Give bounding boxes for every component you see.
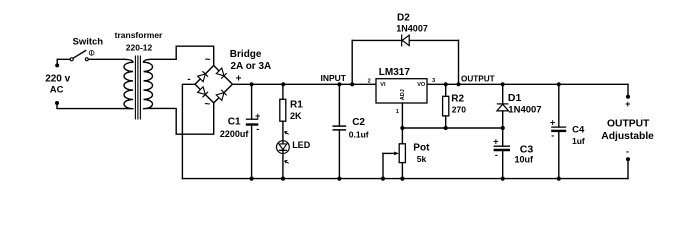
svg-text:1uf: 1uf [572, 136, 585, 146]
node junction C1 bottom [250, 177, 254, 181]
transformer T1 secondary winding [144, 59, 153, 108]
svg-text:transformer: transformer [115, 30, 163, 40]
svg-text:+: + [493, 137, 498, 147]
svg-text:270: 270 [452, 105, 466, 115]
svg-text:-: - [256, 124, 259, 134]
svg-text:ADJ: ADJ [400, 89, 406, 100]
resistor R1 top lead [282, 84, 284, 99]
svg-text:C2: C2 [352, 117, 365, 128]
svg-text:-: - [495, 150, 498, 160]
svg-text:Bridge: Bridge [230, 49, 262, 60]
svg-text:D1: D1 [508, 92, 522, 104]
wire output minus stub [627, 159, 629, 178]
node AC line terminal top [55, 63, 59, 67]
svg-text:2A or 3A: 2A or 3A [231, 61, 272, 72]
potentiometer POT wiper arrow [383, 152, 399, 156]
svg-text:VI: VI [380, 82, 386, 88]
svg-text:3: 3 [432, 78, 435, 84]
node junction C2 bottom [337, 177, 341, 181]
resistor R2 bottom lead [445, 116, 447, 128]
wire bridge minus to ground rail [182, 84, 195, 178]
svg-text:1N4007: 1N4007 [508, 104, 541, 115]
transformer T1 core [135, 56, 140, 120]
switch S1 right contact [85, 58, 88, 61]
LED D3 cathode bar [279, 149, 287, 151]
svg-text:220-12: 220-12 [126, 42, 153, 52]
svg-text:1: 1 [396, 109, 399, 115]
node junction R2 top [444, 82, 448, 86]
svg-text:+: + [255, 111, 260, 121]
wire wiper to ground rail [382, 153, 384, 178]
bridge diode left-top [198, 71, 208, 82]
bridge rectifier BR1 diamond [195, 66, 232, 103]
wire U1 ADJ pin [401, 103, 403, 128]
svg-text:AC: AC [50, 85, 64, 96]
wire switch to transformer primary [88, 58, 124, 60]
switch S1 lever [73, 51, 86, 59]
node junction R1 top [281, 82, 285, 86]
svg-text:R2: R2 [451, 93, 464, 104]
svg-text:Adjustable: Adjustable [601, 131, 654, 142]
node junction D2 input [350, 82, 354, 86]
node junction D2 output [456, 82, 460, 86]
svg-text:+: + [550, 118, 555, 128]
svg-text:-: - [551, 131, 554, 141]
wire D2 top horizontal [352, 39, 458, 41]
svg-text:OUTPUT: OUTPUT [607, 119, 650, 130]
capacitor C1 bottom lead [251, 125, 253, 179]
diode D2 symbol [402, 34, 410, 46]
capacitor C2 bottom lead [338, 130, 340, 179]
capacitor C2 plates [333, 126, 347, 130]
node junction C1 top [250, 82, 254, 86]
capacitor C3 top lead [502, 128, 504, 146]
node junction D1 top [501, 82, 505, 86]
wire secondary top to bridge AC top [152, 46, 214, 65]
svg-text:220 v: 220 v [45, 73, 70, 84]
wire LED to ground rail [282, 150, 284, 178]
potentiometer POT top lead [401, 128, 403, 144]
wire D2 output-side vertical [458, 40, 460, 84]
LED D3 arrow upper [285, 131, 289, 134]
LED D3 arrow lower [285, 160, 289, 163]
node output plus terminal [626, 95, 630, 99]
capacitor C3 plates [494, 146, 510, 150]
wire AC bottom lead to transformer [57, 103, 124, 109]
wire secondary bottom to bridge AC bottom [152, 103, 214, 134]
svg-text:0.1uf: 0.1uf [349, 130, 369, 140]
svg-text:VO: VO [417, 82, 426, 88]
node junction C4 top [557, 82, 561, 86]
node junction LED bottom [281, 177, 285, 181]
capacitor C3 bottom lead [502, 150, 504, 179]
svg-text:+: + [625, 99, 630, 109]
wire R1 to LED [282, 121, 284, 144]
node junction ADJ-C3 [501, 126, 505, 130]
node junction C2 top [337, 82, 341, 86]
svg-text:D2: D2 [397, 12, 410, 23]
svg-text:~: ~ [204, 99, 210, 110]
node output minus terminal [626, 157, 630, 161]
bridge diode left-bottom [198, 87, 208, 98]
wire ADJ node line [402, 127, 502, 129]
resistor R2 top lead [445, 84, 447, 96]
svg-text:R1: R1 [290, 100, 303, 111]
capacitor C2 top lead [338, 84, 340, 126]
diode D1 symbol [497, 104, 509, 111]
bridge diode bottom-right [216, 90, 226, 101]
LED D3 triangle [279, 144, 287, 150]
svg-text:1N4007: 1N4007 [396, 24, 428, 34]
switch S1 indicator symbol [89, 50, 94, 55]
svg-text:-: - [626, 147, 629, 157]
resistor R1 body [280, 99, 286, 121]
node junction C4 bottom [557, 177, 561, 181]
wire positive rail input side [232, 83, 376, 85]
svg-text:2K: 2K [290, 111, 302, 121]
bridge diode top-right [216, 68, 226, 79]
capacitor C1 plates [246, 119, 258, 124]
node junction ADJ-R2 [444, 126, 448, 130]
wire AC top lead to switch [57, 59, 70, 65]
wire output plus stub [627, 84, 629, 96]
svg-text:LM317: LM317 [379, 67, 411, 78]
transformer T1 primary winding [124, 59, 133, 108]
svg-text:+: + [236, 74, 242, 85]
svg-text:INPUT: INPUT [321, 73, 347, 83]
svg-text:OUTPUT: OUTPUT [461, 74, 495, 83]
svg-text:Switch: Switch [72, 37, 103, 48]
wire ground rail [182, 178, 628, 180]
svg-text:2200uf: 2200uf [220, 129, 250, 139]
diode D1 top lead [502, 84, 504, 104]
LED D3 circle [277, 141, 290, 154]
svg-text:C4: C4 [572, 125, 585, 136]
node junction wiper bottom [381, 177, 385, 181]
svg-text:C1: C1 [228, 116, 241, 127]
regulator U1 LM317 body [376, 79, 427, 103]
svg-text:Pot: Pot [413, 143, 430, 154]
svg-text:2: 2 [368, 78, 371, 84]
capacitor C4 bottom lead [558, 131, 560, 179]
wire D2 input-side vertical [351, 40, 353, 84]
capacitor C4 plates [551, 127, 566, 131]
svg-text:C3: C3 [520, 143, 534, 155]
svg-text:~: ~ [205, 55, 211, 66]
wire positive rail output side [427, 83, 628, 85]
svg-text:-: - [187, 74, 190, 85]
svg-text:5k: 5k [417, 154, 427, 164]
node junction pot bottom [400, 177, 404, 181]
capacitor C4 top lead [558, 84, 560, 127]
potentiometer POT body [399, 144, 405, 163]
potentiometer POT bottom lead [401, 163, 403, 179]
node AC line terminal bottom [55, 101, 59, 105]
switch S1 left contact [70, 58, 73, 61]
resistor R2 body [443, 96, 449, 116]
diode D1 bottom lead [502, 111, 504, 128]
node junction ADJ-pot [400, 126, 404, 130]
svg-text:10uf: 10uf [515, 155, 535, 165]
capacitor C1 top lead [251, 84, 253, 119]
svg-text:LED: LED [292, 140, 311, 150]
node junction C3 bottom [501, 177, 505, 181]
